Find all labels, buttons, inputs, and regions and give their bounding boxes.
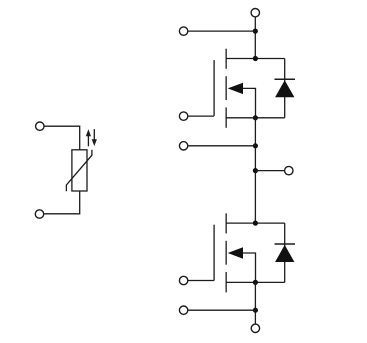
body arrow [228,83,243,94]
terminal T3 (mid left) [179,142,187,150]
channel dash drain [225,49,227,69]
wire T3 to J2 [188,145,256,147]
channel dash source [225,272,227,292]
terminal T2 (top aux) [179,27,187,35]
gate wire [188,115,214,117]
body wire [243,88,256,117]
junction drain dot [253,221,258,226]
terminal G2 [179,276,187,284]
channel dash body [225,76,227,100]
drain wire [226,222,285,224]
wire mid bus [254,118,256,223]
junction J2 [253,143,258,148]
drain wire [226,58,285,60]
wire [44,126,79,150]
junction source dot [253,280,258,285]
diode D2 [275,223,296,282]
gate line [213,60,215,116]
junction J1 [253,29,258,34]
junction drain dot [253,56,258,61]
wire bottom bus [254,282,256,324]
diode triangle [275,245,294,262]
cathode bar [275,78,296,80]
mosfet Q1 [179,49,284,128]
channel dash body [225,241,227,265]
node A terminal (thermistor top) [36,122,44,130]
diode branch wire [284,223,286,282]
wire top feed [254,17,256,59]
terminal G1 [179,112,187,120]
wire T2 to J1 [188,30,256,32]
terminal T7 (bottom source) [251,324,259,332]
arrow up [86,129,91,146]
node B terminal (thermistor bottom) [35,210,43,218]
body wire [243,253,256,282]
wire T6 to J4 [188,309,256,311]
source wire [226,281,285,283]
junction J3 [253,168,258,173]
terminal T4 (mid right) [285,166,293,174]
body arrow [228,247,243,258]
thermistor diagonal stroke [66,150,92,192]
junction J4 [253,308,258,313]
source wire [226,117,285,119]
channel dash source [225,107,227,127]
thermistor RT1 [35,122,97,218]
junction source dot [253,115,258,120]
thermistor body RT1 [72,150,87,191]
cathode bar [275,243,296,245]
wire [44,191,80,214]
terminal T6 (bottom aux) [179,306,187,314]
diode branch wire [284,59,286,118]
wire J3 to T4 [255,170,284,172]
diode triangle [275,80,294,97]
terminal T1 (top drain) [251,9,259,17]
channel dash drain [225,213,227,233]
arrow down [92,129,97,146]
diode D1 [275,59,296,118]
gate wire [188,280,214,282]
gate line [213,225,215,281]
mosfet Q2 [179,213,284,292]
